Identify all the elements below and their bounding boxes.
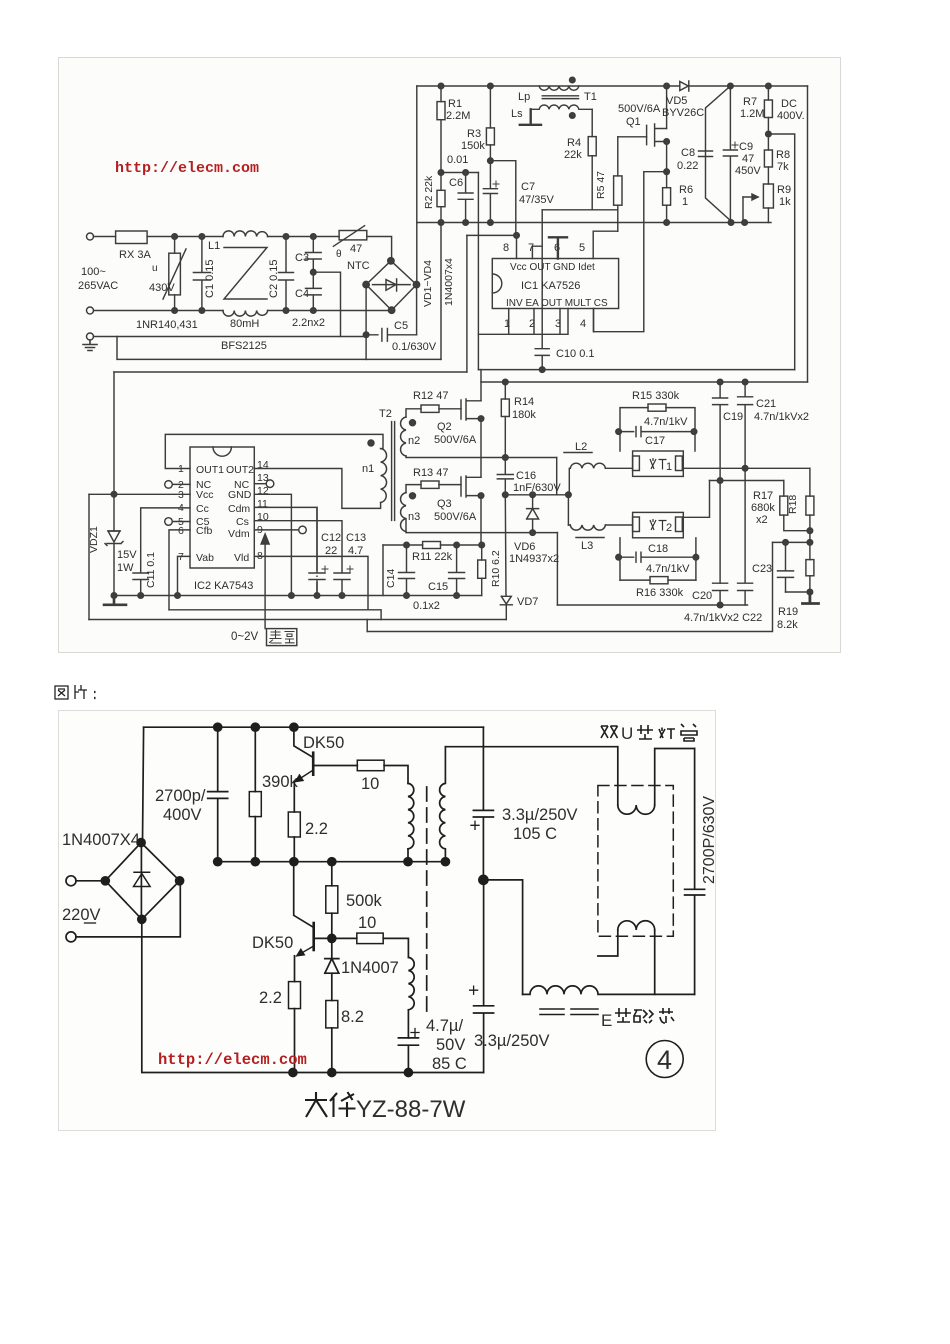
svg-text:1N4007x4: 1N4007x4 (443, 258, 455, 306)
svg-text:3.3µ/250V: 3.3µ/250V (502, 806, 578, 824)
hanzi tu (55, 686, 68, 699)
wire right border (807, 86, 809, 382)
svg-text:R16 330k: R16 330k (636, 587, 684, 599)
wire Q1 source to pin4 CS (594, 172, 667, 332)
svg-text:150k: 150k (461, 140, 485, 152)
resistor R6 (666, 172, 668, 188)
capacitor C4 (306, 272, 322, 310)
capacitor C17 (619, 427, 694, 437)
resistor R2 (437, 190, 445, 206)
wire pin6 Cfb (169, 530, 190, 610)
transformer T2 core (392, 422, 395, 521)
svg-text:VD5: VD5 (666, 95, 687, 107)
capacitor C2 (279, 237, 294, 311)
wire lamp1 right (683, 467, 810, 469)
bridge rectifier (105, 843, 179, 920)
wire C5 label loop (366, 335, 441, 360)
svg-text:8: 8 (503, 242, 509, 254)
wire divider tap down right side (768, 134, 794, 370)
wire pins 1 2 3 INV EA bus (478, 309, 568, 335)
capacitor C9 electrolytic (723, 86, 737, 223)
svg-text:C5: C5 (394, 320, 408, 332)
label lamp1 hanzi deng 1 (650, 458, 667, 470)
svg-text:BFS2125: BFS2125 (221, 340, 267, 352)
wire clamp row (505, 494, 568, 496)
svg-text:n3: n3 (408, 511, 420, 523)
resistor R12 (406, 409, 421, 417)
svg-text:R1: R1 (448, 98, 462, 110)
wire pin8 Vld (254, 556, 368, 609)
wire bridge minus down (142, 919, 484, 1072)
svg-text:2.2nx2: 2.2nx2 (292, 317, 325, 329)
capacitor C14 (399, 545, 415, 596)
svg-text:http://elecm.com: http://elecm.com (158, 1051, 307, 1069)
transformer T1 Lp winding (539, 86, 579, 90)
capacitor 3.3u/250V upper (473, 747, 493, 880)
resistor R5 (617, 137, 619, 176)
hanzi yao (270, 631, 282, 644)
terminal E input (87, 333, 94, 340)
svg-text:500V/6A: 500V/6A (434, 511, 477, 523)
svg-text:R14: R14 (514, 396, 534, 408)
wire rail C (89, 619, 506, 621)
capacitor C18 loop (620, 538, 696, 580)
svg-text:C7: C7 (521, 181, 535, 193)
terminal N input (87, 307, 94, 314)
svg-text:4: 4 (580, 318, 586, 330)
lamp 1 (633, 451, 684, 476)
wire feedback mid rail (478, 369, 794, 371)
capacitor C7 electrolytic (483, 161, 497, 223)
choke L1 core (224, 248, 267, 300)
wire top step (482, 727, 484, 747)
svg-text:Cdm: Cdm (228, 503, 250, 515)
svg-text:VD7: VD7 (517, 596, 538, 608)
svg-text:R3: R3 (467, 128, 481, 140)
capacitor C6 0.01 (458, 173, 473, 223)
svg-text:8.2k: 8.2k (777, 619, 798, 631)
wire lower top rail (481, 370, 808, 382)
svg-text:R13 47: R13 47 (413, 467, 448, 479)
svg-text:Vab: Vab (196, 552, 214, 564)
svg-text:u: u (152, 263, 158, 274)
capacitor C22 (738, 468, 753, 605)
svg-text:390k: 390k (262, 773, 299, 791)
svg-text:C10 0.1: C10 0.1 (556, 348, 595, 360)
svg-text:0.1x2: 0.1x2 (413, 600, 440, 612)
svg-text:1N4937x2: 1N4937x2 (509, 553, 559, 565)
svg-text:2: 2 (666, 522, 672, 534)
svg-text:T2: T2 (379, 408, 392, 420)
phase dot Ls (570, 113, 576, 119)
resistor R13 (406, 485, 421, 493)
svg-text:Vcc: Vcc (196, 489, 214, 501)
wire Vcc riser to 15V rail (466, 235, 468, 372)
svg-text:INV EA OUT MULT CS: INV EA OUT MULT CS (506, 298, 608, 309)
svg-text:R18: R18 (787, 495, 799, 514)
svg-text:680k: 680k (751, 502, 775, 514)
diode VD6 (527, 495, 539, 533)
resistor 10 upper (313, 765, 357, 767)
svg-text:Vdm: Vdm (228, 528, 250, 540)
wire NTC to bridge (367, 237, 392, 261)
svg-text:C17: C17 (645, 435, 665, 447)
lamp tube lower U (598, 930, 655, 994)
resistor R19 (806, 560, 814, 576)
capacitor 4.7u/50V (398, 1038, 418, 1073)
resistor 2.2 upper (293, 782, 295, 813)
svg-text:C12: C12 (321, 532, 341, 544)
wire left edge (143, 727, 144, 842)
capacitor C3 (306, 237, 322, 273)
wire C6 node down to INV bus (477, 173, 479, 370)
svg-text:C8: C8 (681, 147, 695, 159)
svg-text:R2 22k: R2 22k (423, 175, 435, 209)
lamp 2 (633, 512, 684, 537)
wire top AC (147, 236, 223, 238)
wire pin1 OUT1 to n1 top (165, 434, 383, 468)
resistor R10 (481, 545, 483, 560)
svg-text:1N4007X4: 1N4007X4 (62, 831, 140, 849)
wire rail B (169, 610, 381, 620)
svg-text:IC1 KA7526: IC1 KA7526 (521, 280, 580, 292)
resistor R14 (503, 379, 509, 385)
colon (94, 692, 96, 698)
svg-text:2.2M: 2.2M (446, 110, 470, 122)
ground at rail A (104, 596, 126, 605)
capacitor C5 (366, 329, 417, 342)
wire pin5 Idet (593, 231, 618, 258)
label shuang U xing deng guan (601, 726, 618, 738)
wire pin7 OUT stub (532, 246, 542, 258)
capacitor C19 (713, 382, 728, 583)
mosfet Q3 (461, 476, 481, 497)
svg-text:500k: 500k (346, 892, 383, 910)
svg-text:RX 3A: RX 3A (119, 249, 151, 261)
wire AC earth rail (94, 336, 367, 338)
svg-text:2700P/630V: 2700P/630V (701, 796, 715, 884)
svg-text:DK50: DK50 (252, 934, 293, 952)
svg-text:500V/6A: 500V/6A (618, 103, 661, 115)
wire 15V rail left (114, 371, 467, 373)
svg-text:6: 6 (178, 525, 184, 537)
svg-text:1: 1 (682, 196, 688, 208)
svg-text:3.3µ/250V: 3.3µ/250V (474, 1032, 550, 1050)
svg-text:85 C: 85 C (432, 1055, 467, 1073)
wire gnd rail of control section (417, 222, 771, 224)
svg-text:C19: C19 (723, 411, 743, 423)
bridge rectifier VD1~VD4 (366, 261, 416, 310)
ground bar pin6 GND (549, 237, 567, 258)
svg-text:50V: 50V (436, 1036, 465, 1054)
svg-text:C6: C6 (449, 177, 463, 189)
svg-text:U: U (621, 724, 633, 743)
wire R5 to Q1 gate (618, 136, 647, 138)
pin5 terminal (173, 521, 191, 523)
svg-text:C4: C4 (295, 288, 309, 300)
svg-text:1W: 1W (117, 562, 134, 574)
feedback winding upper (408, 783, 414, 848)
resistor R16 330k (620, 579, 696, 581)
svg-text:2.2: 2.2 (305, 820, 328, 838)
svg-text:47: 47 (742, 153, 754, 165)
capacitor C1 (193, 237, 210, 311)
svg-text:105 C: 105 C (513, 825, 557, 843)
hanzi pian (75, 685, 87, 699)
resistor R11 (423, 542, 441, 549)
wire pin11 Cdm / capacitor C12 (254, 507, 317, 595)
wire pin14 OUT2 to n1 bottom (254, 469, 380, 509)
svg-text:1NR140,431: 1NR140,431 (136, 319, 198, 331)
IC U2 KA7543 box (190, 447, 254, 568)
svg-text:22: 22 (325, 545, 337, 557)
svg-text:10: 10 (361, 775, 379, 793)
wire left enclosure (88, 494, 90, 619)
svg-text:Q2: Q2 (437, 421, 452, 433)
svg-text:2700p/: 2700p/ (155, 787, 206, 805)
capacitor C20 (713, 583, 728, 605)
svg-text:C16: C16 (516, 470, 536, 482)
svg-text:220V: 220V (62, 906, 101, 924)
resistor 2.2 lower (294, 956, 296, 982)
svg-text:1k: 1k (779, 196, 791, 208)
wire Vcc pin8 (467, 235, 517, 258)
wire pin10 Cs / capacitor C13 (254, 521, 350, 596)
svg-text:R19: R19 (778, 606, 798, 618)
svg-text:1nF/630V: 1nF/630V (513, 482, 561, 494)
capacitor C21 (738, 382, 753, 468)
snubber box C14 C15 R10 R11 (382, 545, 384, 596)
lamp dashed outline (598, 786, 673, 937)
IC U1 KA7526 box (492, 259, 618, 309)
svg-text:47: 47 (350, 243, 362, 255)
wire C3C4 mid to AC earth rail (313, 272, 340, 336)
svg-text:180k: 180k (512, 409, 536, 421)
svg-text:400V: 400V (163, 806, 202, 824)
svg-text:Lp: Lp (518, 91, 530, 103)
capacitor C15 (449, 545, 465, 596)
winding n3 (401, 493, 406, 532)
svg-text:C20: C20 (692, 590, 712, 602)
capacitor 2700P/630V (685, 749, 705, 995)
bottom schematic scanned image (58, 710, 716, 1131)
svg-text:DK50: DK50 (303, 734, 344, 752)
wire rail C to D jog (366, 620, 368, 632)
svg-text:C1 0.15: C1 0.15 (204, 259, 216, 298)
fuse RX 3A (94, 236, 116, 238)
capacitor C16 (497, 458, 513, 495)
svg-text:n1: n1 (362, 463, 374, 475)
svg-text:Cfb: Cfb (196, 525, 213, 537)
svg-text:4.7: 4.7 (348, 545, 363, 557)
lamp tube upper U (618, 747, 695, 805)
wire pin3 Vcc (89, 493, 190, 495)
svg-text:C21: C21 (756, 398, 776, 410)
svg-text:265VAC: 265VAC (78, 280, 118, 292)
svg-text:n2: n2 (408, 435, 420, 447)
wire R2 bottom to C5 loop (440, 223, 442, 360)
wire mid tap row (710, 480, 784, 482)
wire bridge left to C5 (365, 285, 367, 335)
winding n1 (381, 449, 387, 503)
E core choke (523, 986, 695, 995)
wire left edge of PFC block (416, 86, 418, 285)
inductor L2 (570, 463, 605, 468)
svg-text:400V.: 400V. (777, 110, 805, 122)
zener VDZ1 15V (108, 372, 120, 531)
svg-text:0~2V: 0~2V (231, 631, 259, 643)
svg-text:4.7µ/: 4.7µ/ (426, 1017, 463, 1035)
inductor L3 (570, 525, 605, 530)
svg-text:OUT1: OUT1 (196, 464, 224, 476)
resistor 390k (254, 727, 256, 791)
wire top AC 2 (268, 236, 340, 238)
svg-text:R6: R6 (679, 184, 693, 196)
svg-text:4.7n/1kVx2: 4.7n/1kVx2 (754, 411, 809, 423)
wire R3 to Vcc pin8 (490, 161, 515, 236)
choke L1 bottom winding (223, 311, 268, 317)
svg-text:C15: C15 (428, 581, 448, 593)
wire ground rail A (114, 595, 482, 597)
svg-text:80mH: 80mH (230, 318, 259, 330)
resistor 10 lower (357, 933, 383, 944)
wire lamp2 right riser (683, 481, 709, 518)
wire 3.3u bottom column (474, 880, 494, 1073)
svg-text:C14: C14 (385, 569, 397, 588)
svg-text:x2: x2 (756, 514, 768, 526)
capacitor C23 (773, 542, 810, 592)
svg-text:0.01: 0.01 (447, 154, 468, 166)
wire top rail (144, 726, 484, 728)
svg-text:7: 7 (528, 242, 534, 254)
winding n2 (401, 417, 406, 456)
potentiometer R9 (763, 184, 773, 208)
svg-text:R7: R7 (743, 96, 757, 108)
terminal AC 1 (66, 876, 76, 886)
transformer core dashed (426, 787, 428, 1013)
capacitor 2700p/400V (208, 727, 228, 862)
svg-text:Q3: Q3 (437, 498, 452, 510)
wire C5 right to bridge right (416, 285, 418, 335)
svg-text:VDZ1: VDZ1 (88, 526, 100, 553)
svg-text:0.1/630V: 0.1/630V (392, 341, 437, 353)
svg-text:R4: R4 (567, 137, 581, 149)
mosfet Q1 (647, 124, 667, 146)
svg-text:1.2M: 1.2M (740, 108, 764, 120)
resistor 500k (331, 862, 333, 886)
wire R1 R2 node to C6 (441, 172, 478, 174)
E core mark (540, 1009, 598, 1015)
caption tu pian (54, 683, 114, 705)
ground at Ls (520, 109, 541, 125)
resistor 8.2 (326, 1001, 338, 1028)
svg-text:2.2: 2.2 (259, 989, 282, 1007)
wire lamp bottom rail (557, 604, 747, 606)
svg-text:Vld: Vld (234, 552, 249, 564)
diode 1N4007 (325, 938, 339, 1000)
svg-text:7k: 7k (777, 161, 789, 173)
transformer T1 Ls winding (531, 105, 593, 109)
resistor R3 (489, 86, 491, 128)
svg-text:http://elecm.com: http://elecm.com (115, 160, 259, 177)
wire to E core choke (484, 880, 523, 995)
svg-text:Cc: Cc (196, 503, 209, 515)
svg-text:E: E (601, 1011, 612, 1030)
svg-text:0.22: 0.22 (677, 160, 698, 172)
feedback winding lower (408, 957, 414, 1009)
svg-text:T1: T1 (584, 91, 597, 103)
svg-text:Vcc OUT GND Idet: Vcc OUT GND Idet (510, 262, 595, 273)
svg-text:IC2 KA7543: IC2 KA7543 (194, 580, 253, 592)
svg-text:VD6: VD6 (514, 541, 535, 553)
wire base row lower (314, 937, 357, 939)
svg-text:C23: C23 (752, 563, 772, 575)
svg-text:L3: L3 (581, 540, 593, 552)
svg-text:C2 0.15: C2 0.15 (268, 259, 280, 298)
svg-text:100~: 100~ (81, 266, 106, 278)
remote control arrow (264, 541, 266, 629)
svg-text:OUT2: OUT2 (226, 464, 254, 476)
capacitor C10 (535, 210, 549, 370)
svg-text:DC: DC (781, 98, 797, 110)
svg-text:Q1: Q1 (626, 116, 641, 128)
diode VD7 (500, 495, 512, 620)
transformer T1 core (542, 96, 578, 99)
pin2 NC terminal (173, 483, 191, 485)
svg-text:11: 11 (257, 498, 268, 510)
svg-text:θ: θ (336, 249, 342, 260)
svg-text:R10 6.2: R10 6.2 (490, 550, 502, 587)
svg-text:15V: 15V (117, 549, 137, 561)
diode VD5 (680, 81, 689, 91)
svg-text:430V: 430V (149, 282, 175, 294)
wire pin9 Vdm terminal (254, 529, 298, 531)
ground at R19 (803, 592, 819, 604)
capacitor C8 (706, 86, 731, 221)
svg-text:VD1~VD4: VD1~VD4 (422, 260, 434, 307)
svg-text:500V/6A: 500V/6A (434, 434, 477, 446)
svg-text:4: 4 (657, 1045, 672, 1075)
label da hua YZ-88-7W (305, 1092, 327, 1117)
wire pin12 GND (254, 494, 291, 595)
label lamp2 hanzi deng 2 (650, 519, 667, 531)
svg-text:4.7n/1kV: 4.7n/1kV (646, 563, 690, 575)
svg-text:R15 330k: R15 330k (632, 390, 680, 402)
svg-text:L1: L1 (208, 240, 220, 252)
wire top DC rail (417, 85, 808, 87)
svg-text:R5 47: R5 47 (595, 171, 607, 199)
svg-text:C11 0.1: C11 0.1 (145, 552, 157, 588)
varistor 1NR140,431 (174, 237, 176, 311)
svg-text:C13: C13 (346, 532, 366, 544)
terminal AC 2 (66, 932, 76, 942)
wire pin4 Cc / capacitor C11 (133, 508, 190, 596)
svg-text:5: 5 (579, 242, 585, 254)
svg-text:YZ-88-7W: YZ-88-7W (356, 1096, 466, 1123)
resistor R17 (783, 481, 785, 497)
svg-text:10: 10 (358, 914, 376, 932)
svg-text:4.7n/1kVx2 C22: 4.7n/1kVx2 C22 (684, 612, 762, 624)
wire rail D (367, 542, 772, 631)
svg-text:47/35V: 47/35V (519, 194, 555, 206)
svg-text:R12 47: R12 47 (413, 390, 448, 402)
choke L1 top winding (223, 231, 268, 237)
wire pin4 CS stub (593, 309, 595, 332)
svg-text:GND: GND (228, 489, 252, 501)
terminal L input (87, 233, 94, 240)
resistor R18 (809, 468, 811, 496)
svg-text:C18: C18 (648, 543, 668, 555)
